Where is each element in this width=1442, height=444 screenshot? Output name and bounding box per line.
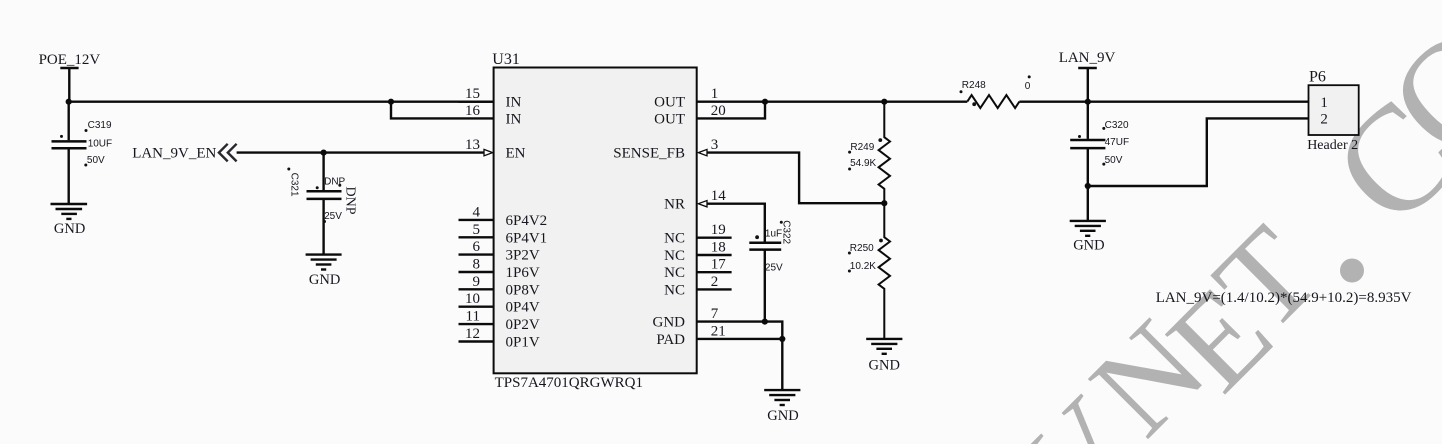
svg-text:13: 13 — [465, 137, 480, 153]
svg-text:19: 19 — [711, 222, 726, 238]
port chevron LAN_9V_EN — [219, 144, 228, 162]
wire branch to pin16 — [391, 102, 494, 119]
svg-text:NC: NC — [664, 248, 685, 264]
pin 15 stub — [459, 100, 494, 102]
pin 12 stub — [459, 340, 494, 342]
svg-text:16: 16 — [465, 103, 481, 119]
svg-text:47UF: 47UF — [1105, 137, 1129, 148]
junction C320 bottom tap — [1085, 183, 1091, 189]
svg-text:R250: R250 — [850, 243, 874, 254]
svg-text:6P4V1: 6P4V1 — [506, 230, 548, 246]
svg-text:6: 6 — [473, 239, 481, 255]
capacitor C320 — [1070, 139, 1105, 142]
svg-text:0P1V: 0P1V — [506, 335, 540, 351]
pin 5 stub — [459, 236, 494, 238]
pin 4 stub — [459, 219, 494, 221]
svg-text:NC: NC — [664, 265, 685, 281]
pin 10 stub — [459, 306, 494, 308]
svg-text:12: 12 — [465, 326, 480, 342]
anchor dot R250 — [879, 239, 883, 243]
svg-text:14: 14 — [711, 188, 727, 204]
ground GND (C321) — [306, 253, 342, 255]
svg-text:NC: NC — [664, 231, 685, 247]
svg-text:POE_12V: POE_12V — [39, 52, 101, 68]
svg-text:P6: P6 — [1309, 69, 1326, 86]
capacitor C321 — [307, 190, 342, 193]
junction pin16 tap — [388, 99, 394, 105]
svg-text:0P2V: 0P2V — [506, 317, 540, 333]
pin 18 stub — [697, 254, 732, 256]
pin 19 stub — [697, 236, 732, 238]
svg-text:17: 17 — [711, 257, 727, 273]
svg-text:21: 21 — [711, 323, 726, 339]
svg-text:Header 2: Header 2 — [1307, 138, 1358, 153]
wire R248 to LAN_9V junction — [1019, 100, 1308, 102]
wire P6 pin2 net — [1088, 118, 1309, 186]
svg-text:20: 20 — [711, 103, 726, 119]
svg-text:25V: 25V — [765, 262, 783, 273]
svg-text:0P8V: 0P8V — [506, 282, 540, 298]
wire C320 to ground — [1087, 148, 1089, 221]
svg-text:54.9K: 54.9K — [850, 158, 876, 169]
svg-text:LAN_9V=(1.4/10.2)*(54.9+10.2)=: LAN_9V=(1.4/10.2)*(54.9+10.2)=8.935V — [1156, 290, 1412, 306]
pin 9 stub — [459, 288, 494, 290]
svg-text:GND: GND — [54, 221, 85, 237]
wire NR to C322 — [707, 204, 765, 242]
svg-text:4: 4 — [473, 204, 481, 220]
svg-text:U31: U31 — [492, 51, 520, 68]
junction PAD/GND net — [779, 336, 785, 342]
pin arrow EN — [484, 149, 493, 155]
ground GND (R250) — [866, 338, 902, 340]
svg-text:50V: 50V — [87, 155, 105, 166]
pin 17 stub — [697, 271, 732, 273]
svg-text:C322: C322 — [781, 220, 792, 244]
svg-text:PAD: PAD — [656, 332, 685, 348]
svg-text:1: 1 — [1320, 95, 1328, 111]
svg-text:IN: IN — [506, 111, 522, 127]
wire SENSE_FB to divider tap — [707, 153, 884, 204]
svg-text:10: 10 — [465, 291, 480, 307]
svg-text:IN: IN — [506, 95, 522, 111]
junction LAN_9V/C320 — [1085, 99, 1091, 105]
svg-text:EN: EN — [506, 146, 526, 162]
power symbol LAN_9V — [1078, 67, 1097, 69]
svg-text:0P4V: 0P4V — [506, 300, 540, 316]
svg-text:C319: C319 — [88, 120, 112, 131]
anchor dot C322 — [755, 235, 759, 239]
anchor dot R248 — [960, 90, 963, 93]
svg-text:25V: 25V — [324, 211, 342, 222]
svg-text:GND: GND — [653, 315, 686, 331]
watermark — [995, 0, 1442, 444]
svg-text:LAN_9V_EN: LAN_9V_EN — [132, 146, 216, 162]
svg-text:OUT: OUT — [654, 95, 685, 111]
svg-text:R248: R248 — [962, 80, 986, 91]
svg-text:2: 2 — [1320, 112, 1328, 128]
svg-text:NC: NC — [664, 282, 685, 298]
svg-text:15: 15 — [465, 86, 480, 102]
wire PAD pin21 — [697, 338, 783, 340]
svg-text:NR: NR — [664, 197, 685, 213]
anchor dot R249 — [878, 138, 882, 142]
wire C320 branch down — [1087, 102, 1089, 139]
ground GND (U31 pad) — [764, 389, 800, 391]
svg-text:3P2V: 3P2V — [506, 248, 540, 264]
pin arrow NR — [698, 201, 707, 207]
pin 11 stub — [459, 323, 494, 325]
junction POE_12V/C319 — [66, 99, 72, 105]
svg-text:5: 5 — [473, 222, 481, 238]
anchor dot C319 — [60, 135, 63, 138]
wire OUT pin20 up to rail — [697, 102, 765, 119]
IC U31 body — [494, 68, 697, 374]
svg-text:0: 0 — [1025, 81, 1031, 92]
junction C322/GND net — [762, 319, 768, 325]
wire GND pin7 — [697, 322, 783, 391]
svg-text:10UF: 10UF — [88, 139, 112, 150]
svg-text:LAN_9V: LAN_9V — [1059, 50, 1116, 66]
wire C319 branch down — [67, 102, 69, 141]
svg-text:11: 11 — [466, 309, 480, 325]
anchor dot C321 — [287, 168, 290, 171]
power symbol POE_12V — [60, 67, 78, 69]
svg-text:18: 18 — [711, 240, 726, 256]
capacitor C319 — [52, 140, 87, 143]
capacitor C322 — [749, 241, 781, 244]
svg-text:DNP: DNP — [343, 187, 358, 215]
pin 8 stub — [459, 271, 494, 273]
svg-text:SENSE_FB: SENSE_FB — [613, 146, 685, 162]
svg-text:C321: C321 — [288, 173, 299, 197]
svg-text:9: 9 — [473, 274, 481, 290]
svg-text:OUT: OUT — [654, 111, 685, 127]
junction R249 top — [881, 99, 887, 105]
wire C321 to ground — [322, 199, 324, 255]
resistor R248 — [967, 95, 1019, 108]
svg-text:TPS7A4701QRGWRQ1: TPS7A4701QRGWRQ1 — [495, 375, 643, 391]
svg-text:10.2K: 10.2K — [850, 261, 876, 272]
junction R249/R250 divider tap — [881, 200, 887, 206]
svg-text:GND: GND — [767, 408, 798, 424]
svg-text:8: 8 — [473, 257, 481, 273]
svg-text:DNP: DNP — [324, 176, 345, 187]
connector P6 body — [1309, 85, 1359, 135]
svg-text:R249: R249 — [850, 142, 874, 153]
svg-text:GND: GND — [1073, 238, 1104, 254]
svg-text:6P4V2: 6P4V2 — [506, 213, 548, 229]
svg-text:1uF: 1uF — [765, 228, 782, 239]
resistor R249 — [879, 102, 890, 204]
ground GND (C319) — [51, 203, 88, 205]
pin 6 stub — [459, 253, 494, 255]
pin arrow SENSE_FB — [698, 149, 707, 155]
svg-text:50V: 50V — [1105, 155, 1123, 166]
svg-text:C320: C320 — [1105, 120, 1129, 131]
wire C322 down to GND net — [764, 250, 766, 322]
svg-text:GND: GND — [309, 272, 340, 288]
svg-text:2: 2 — [711, 274, 719, 290]
anchor dot C320 — [1102, 127, 1105, 130]
wire C319 to ground — [67, 148, 69, 204]
svg-text:7: 7 — [711, 306, 719, 322]
resistor R250 — [879, 203, 890, 339]
svg-text:1P6V: 1P6V — [506, 265, 540, 281]
svg-text:GND: GND — [869, 358, 900, 374]
pin 2 stub — [697, 288, 732, 290]
svg-text:3: 3 — [711, 137, 719, 153]
junction C321 tap — [321, 150, 327, 156]
wire OUT pin1 to rail — [697, 100, 968, 102]
wire POE_12V rail to U31 IN pin15 — [69, 100, 494, 102]
junction OUT rail pin20 — [762, 99, 768, 105]
svg-text:1: 1 — [711, 86, 719, 102]
wire LAN_9V_EN to EN pin13 — [237, 151, 484, 153]
wire C321 branch down — [322, 153, 324, 191]
ground GND (C320) — [1070, 220, 1106, 222]
